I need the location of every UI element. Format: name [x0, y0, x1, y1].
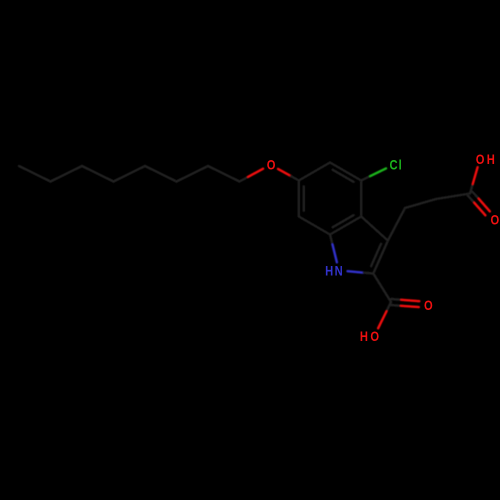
svg-text:O: O — [267, 158, 276, 173]
svg-text:HO: HO — [360, 329, 382, 344]
aromatic inner line C3a=C7a — [333, 215, 354, 227]
bond N1-C2 — [348, 271, 364, 273]
bond P5-P4 — [114, 166, 146, 182]
double bond Ct=Otd — [472, 192, 479, 199]
bond A1-A2 — [405, 199, 436, 208]
bond C5-C4 — [330, 163, 361, 181]
aromatic inner line C7=C6 — [303, 186, 305, 210]
aromatic inner line C5=C4 — [333, 170, 354, 182]
svg-text:HN: HN — [325, 263, 344, 278]
bond A2-Ct — [436, 194, 470, 200]
bond C7-C6 — [298, 181, 300, 217]
bond Oe-C6 — [278, 169, 291, 176]
bond C3a-C7a — [330, 217, 361, 235]
svg-text:Cl: Cl — [390, 158, 403, 173]
bond C7a-N1 — [330, 235, 333, 245]
bond C2-Cb — [373, 274, 391, 303]
svg-text:O: O — [424, 298, 433, 313]
svg-text:OH: OH — [476, 152, 497, 167]
bond C3-C3a — [361, 217, 388, 241]
bond C6-C5 — [299, 163, 330, 181]
bond Ct-Oth — [470, 184, 473, 194]
bond C7a-C7 — [299, 217, 330, 235]
bond P4-P3 — [145, 166, 177, 182]
bond P1-Oe — [240, 177, 249, 182]
bond P3-P2 — [177, 166, 209, 182]
bond C2-C3 — [373, 241, 388, 274]
bond P8-P7 — [19, 166, 51, 182]
svg-text:O: O — [490, 213, 499, 228]
bond C3-A1 — [388, 208, 405, 241]
aromatic inner line C2=C3 — [371, 244, 381, 266]
double bond Cb=Obd — [391, 298, 401, 301]
bond C4-C3a — [360, 181, 362, 217]
bond C4-Cl — [361, 176, 370, 180]
bond Cb-Obh — [386, 302, 391, 312]
bond P7-P6 — [51, 166, 83, 182]
bond P2-P1 — [208, 166, 240, 182]
bond P6-P5 — [82, 166, 114, 182]
